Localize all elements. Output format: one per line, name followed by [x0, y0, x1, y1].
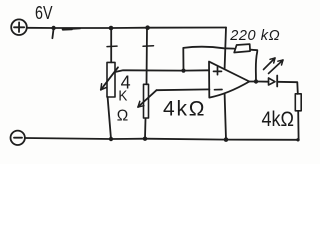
wire op-amp V+ supply pin: [225, 28, 226, 69]
tick mark on potentiometer lead: [107, 45, 117, 48]
value label 4kΩ right: [262, 107, 295, 131]
value label 220 k Ω: [229, 28, 280, 44]
junction dot feedback to noninverting input: [181, 69, 185, 73]
svg-text:6V: 6V: [35, 3, 53, 23]
potentiometer wiper arrow: [101, 67, 118, 90]
wire feedback top run: [183, 47, 234, 49]
LED D1 diode: [258, 76, 277, 87]
junction dot on top rail: [51, 26, 55, 30]
bottom return rail wire: [25, 138, 298, 140]
wire potentiometer top lead: [110, 28, 112, 62]
wire resistor R2 top lead: [146, 28, 149, 85]
resistor R2 wiper arrow: [138, 90, 157, 107]
battery positive terminal: [11, 19, 27, 35]
top supply rail wire: [27, 27, 226, 30]
node junction dot resistor top: [145, 25, 150, 30]
resistor R2 body 4kΩ: [144, 84, 149, 118]
wire feedback left drop: [182, 48, 184, 71]
battery negative terminal: [11, 131, 25, 145]
wire resistor R3 bottom lead: [297, 111, 299, 140]
junction dot op-amp V- bottom: [224, 137, 229, 142]
junction blob bottom right corner: [296, 138, 299, 141]
potentiometer body 4KΩ: [107, 62, 115, 97]
wire potentiometer bottom lead: [108, 97, 111, 139]
svg-text:4kΩ: 4kΩ: [262, 107, 295, 131]
junction dot resistor R2 bottom: [143, 137, 147, 141]
value label 4 K Ω stacked: [117, 72, 131, 124]
wire feedback right lead: [250, 50, 257, 82]
value label 6V: [35, 3, 53, 23]
resistor 220kΩ body: [234, 44, 250, 52]
junction dot output node: [254, 79, 258, 83]
svg-text:4kΩ: 4kΩ: [163, 98, 206, 121]
svg-text:Ω: Ω: [117, 107, 129, 124]
wire LED to resistor R3: [277, 82, 298, 94]
wire retrace mark on top rail: [63, 28, 72, 31]
wire op-amp V- supply pin: [225, 94, 226, 140]
wire noninverting input net: [115, 70, 209, 72]
op-amp plus input symbol: [214, 67, 222, 75]
wire stub below junction: [52, 29, 53, 39]
LED emission arrow 1: [264, 58, 276, 70]
svg-text:K: K: [118, 87, 127, 104]
tick mark on resistor lead: [143, 45, 154, 48]
node junction dot potentiometer top: [109, 26, 114, 31]
resistor R3 body 4kΩ: [295, 94, 301, 111]
LED emission arrow 2: [269, 60, 284, 74]
op-amp minus input symbol: [215, 89, 223, 91]
svg-text:220 kΩ: 220 kΩ: [229, 28, 280, 44]
junction dot potentiometer bottom: [109, 137, 113, 141]
wire inverting input net: [157, 88, 210, 91]
value label 4kΩ: [163, 98, 206, 121]
op-amp U1 triangle: [209, 62, 249, 98]
wire resistor R2 bottom lead: [144, 119, 147, 139]
wire op-amp output: [249, 81, 254, 83]
